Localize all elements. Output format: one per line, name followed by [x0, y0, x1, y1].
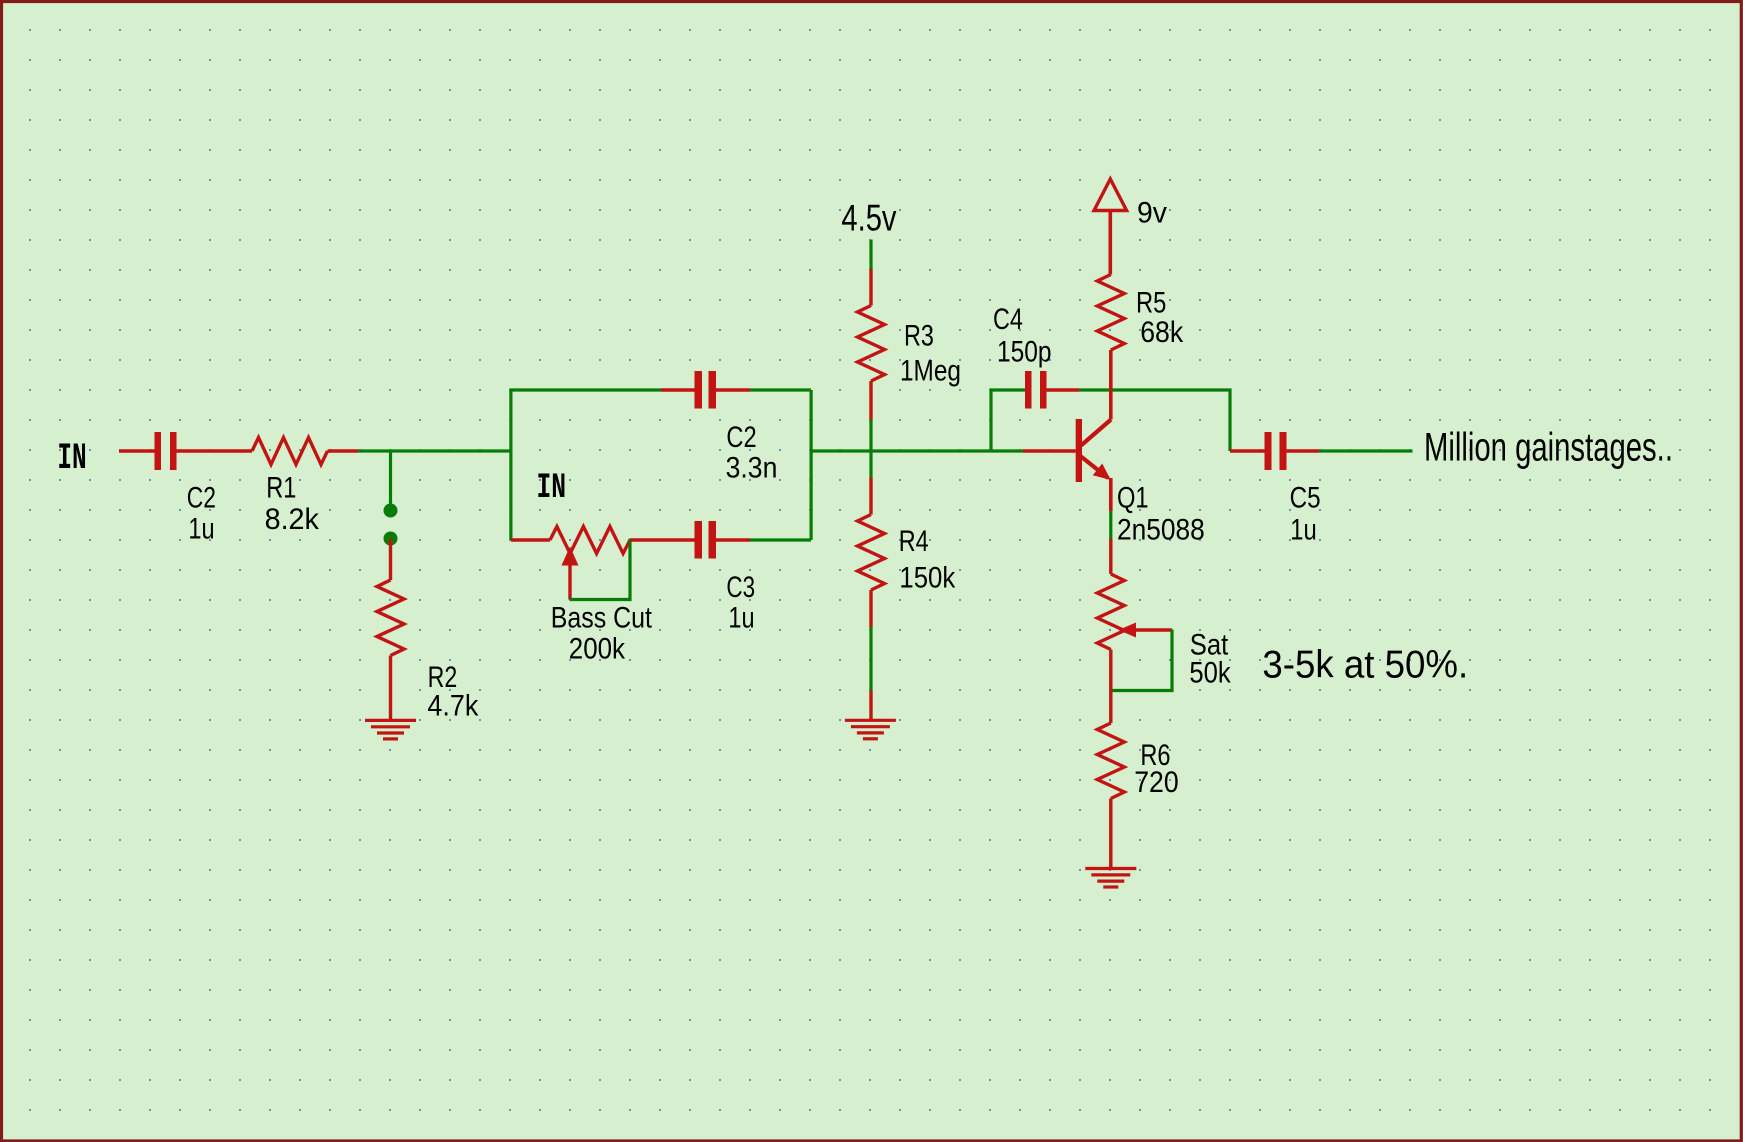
wire C5 lead right: [1287, 449, 1320, 452]
wire box top-right edge: [750, 388, 811, 391]
svg-text:C2: C2: [726, 420, 756, 453]
wire Q1 base lead: [1023, 449, 1076, 453]
wire Sat to R6: [1109, 650, 1112, 724]
wire C2 to R1: [177, 449, 253, 452]
svg-text:50k: 50k: [1189, 656, 1230, 689]
capacitor C5 1u: [1265, 432, 1287, 470]
wire R3 top lead: [869, 269, 872, 306]
svg-text:IN: IN: [537, 469, 567, 508]
svg-text:C3: C3: [726, 570, 755, 604]
svg-text:R3: R3: [904, 319, 934, 352]
resistor R5 68k: [1097, 275, 1124, 351]
svg-text:C2: C2: [187, 480, 216, 514]
wire R3 bottom lead: [869, 381, 872, 420]
svg-text:Bass Cut: Bass Cut: [551, 600, 653, 633]
wire IN stub: [119, 449, 155, 452]
ground symbol (R2): [365, 720, 416, 739]
svg-text:1u: 1u: [1290, 513, 1316, 546]
capacitor C3 1u: [695, 521, 717, 559]
wire emitter to Sat: [1109, 539, 1112, 574]
svg-text:1Meg: 1Meg: [900, 354, 961, 387]
wire emitter net: [1109, 511, 1112, 539]
wire R2 to ground: [389, 656, 392, 720]
wire junction drop: [389, 451, 392, 512]
capacitor C4 150p: [1025, 371, 1047, 409]
wire wiper return (Bass Cut): [570, 539, 630, 600]
wire R1 to box: [358, 449, 511, 452]
svg-text:R1: R1: [266, 471, 296, 504]
ground symbol (R6): [1085, 869, 1136, 888]
svg-text:R4: R4: [899, 525, 929, 558]
wire R1 lead: [328, 449, 359, 452]
capacitor C2 (3.3n): [695, 371, 717, 409]
pot wiper arrow (Bass Cut): [562, 547, 579, 600]
resistor R6 720: [1097, 723, 1124, 799]
wire box to Bass Cut: [511, 538, 550, 541]
wire node B to R2: [389, 539, 392, 581]
wire C2 box lead right: [716, 388, 750, 391]
wire bus to C5: [1230, 449, 1265, 452]
capacitor C2 (input 1u): [155, 432, 177, 470]
wire C3 lead right: [716, 538, 750, 541]
svg-text:3-5k at 50%.: 3-5k at 50%.: [1262, 643, 1468, 686]
resistor R3 1Meg: [858, 306, 885, 382]
ground symbol (R4): [845, 720, 896, 739]
wire main bus to Q1: [811, 449, 1023, 452]
svg-text:3.3n: 3.3n: [726, 451, 778, 484]
svg-text:Million gainstages..: Million gainstages..: [1424, 425, 1673, 470]
svg-text:150p: 150p: [997, 334, 1052, 368]
wire wiper return (Sat): [1111, 630, 1172, 691]
power symbol 9v: [1094, 179, 1127, 275]
resistor R1 8.2k: [252, 438, 328, 465]
transistor Q1 2n5088: [1076, 419, 1111, 482]
svg-text:200k: 200k: [569, 632, 625, 665]
svg-text:8.2k: 8.2k: [265, 504, 320, 536]
wire box right edge: [809, 390, 812, 540]
svg-text:R5: R5: [1136, 286, 1166, 319]
node junction dot A: [384, 504, 398, 518]
wire R4 to ground: [869, 627, 872, 691]
wire R4 bottom lead: [869, 590, 872, 627]
svg-text:C4: C4: [993, 303, 1023, 336]
svg-text:1u: 1u: [728, 601, 754, 634]
wire R4 top lead: [869, 478, 872, 515]
wire box left/top edge: [511, 390, 661, 540]
svg-text:150k: 150k: [899, 561, 955, 594]
svg-text:4.5v: 4.5v: [841, 198, 896, 239]
svg-text:4.7k: 4.7k: [427, 688, 479, 721]
wire R3 to bus: [869, 420, 872, 478]
svg-text:68k: 68k: [1140, 316, 1184, 349]
svg-text:720: 720: [1134, 766, 1178, 799]
svg-text:C5: C5: [1290, 481, 1321, 514]
svg-text:9v: 9v: [1137, 197, 1167, 230]
svg-text:IN: IN: [57, 438, 86, 479]
wire C4 lead right: [1047, 388, 1080, 391]
wire box bottom-right: [750, 538, 811, 541]
wire C4 to collector/C5: [1079, 390, 1230, 451]
wire R6 to ground: [1109, 799, 1112, 868]
wire C4 branch from bus: [991, 390, 1025, 451]
svg-text:2n5088: 2n5088: [1117, 513, 1205, 546]
resistor R4 150k: [858, 515, 885, 591]
resistor R2 4.7k: [377, 580, 404, 656]
potentiometer Bass Cut 200k: [550, 527, 630, 554]
svg-text:1u: 1u: [188, 512, 214, 545]
potentiometer Sat 50k: [1097, 574, 1124, 650]
wire emitter lead: [1109, 478, 1113, 511]
svg-text:Q1: Q1: [1117, 481, 1149, 514]
wire 4.5v pin: [869, 240, 872, 270]
wire ground lead (R4): [869, 691, 872, 720]
pot wiper arrow (Sat): [1119, 623, 1173, 638]
wire C2 box lead left: [661, 388, 695, 391]
wire R5 to collector: [1109, 350, 1113, 420]
node junction dot B: [384, 532, 398, 546]
wire Bass Cut to C3: [630, 538, 695, 541]
wire output: [1319, 449, 1413, 452]
